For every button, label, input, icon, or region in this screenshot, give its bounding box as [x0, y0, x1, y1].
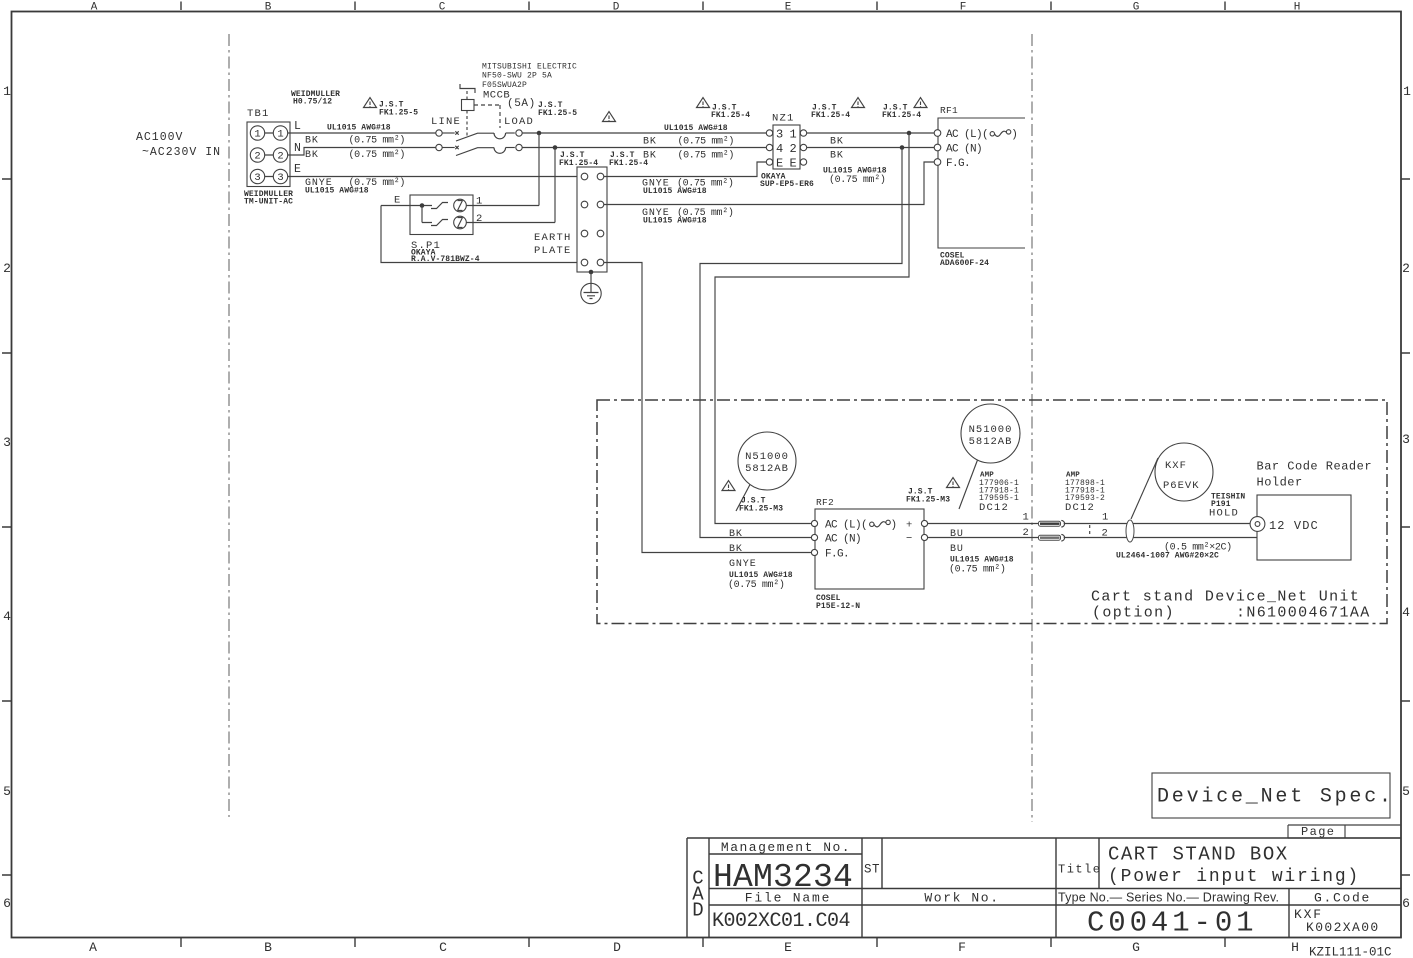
- plug contact row 2: [1039, 534, 1065, 541]
- svg-text:E: E: [776, 157, 783, 171]
- svg-text:P6EVK: P6EVK: [1163, 480, 1200, 492]
- column letters bottom: [89, 940, 1299, 955]
- svg-text:G: G: [1132, 940, 1140, 955]
- svg-text:1: 1: [790, 128, 797, 142]
- terminal label J.S.T FK1.25-4 (middle) + triangle: [811, 104, 850, 121]
- TB1 wire-end ferrule label: [291, 90, 340, 107]
- svg-text:NF50-SWU 2P 5A: NF50-SWU 2P 5A: [482, 72, 552, 81]
- ground symbol: [581, 270, 601, 304]
- svg-text:6: 6: [1402, 896, 1410, 911]
- wire label UL1015 AWG#18 (to NZ1 E): [643, 187, 707, 196]
- row numbers left: [3, 84, 11, 911]
- svg-text:DC12: DC12: [979, 502, 1009, 514]
- plug contact row 1: [1039, 520, 1065, 527]
- svg-text:BK: BK: [830, 151, 844, 162]
- header G.Code: [1314, 891, 1371, 906]
- svg-text:TM-UNIT-AC: TM-UNIT-AC: [244, 198, 293, 207]
- svg-text:1: 1: [277, 129, 283, 141]
- svg-text:): ): [1011, 129, 1017, 141]
- terminal label J.S.T FK1.25-4 (NZ1 left): [711, 104, 750, 121]
- svg-text:1: 1: [1102, 512, 1110, 524]
- svg-text:5: 5: [1402, 784, 1410, 799]
- svg-text:N51000: N51000: [969, 424, 1013, 436]
- svg-text:G: G: [1133, 2, 1140, 14]
- title text Power input wiring: [1108, 867, 1360, 887]
- svg-text:UL1015 AWG#18: UL1015 AWG#18: [643, 187, 707, 196]
- svg-text:4: 4: [3, 609, 11, 624]
- svg-text:K002XC01.C04: K002XC01.C04: [712, 910, 850, 933]
- svg-text:F.G.: F.G.: [825, 549, 849, 561]
- svg-text:LINE: LINE: [431, 116, 461, 128]
- connector DC12 part numbers (left): [979, 472, 1019, 515]
- wire label BK (RF2 N): [729, 544, 743, 555]
- svg-text:BK: BK: [729, 544, 743, 555]
- svg-text:D: D: [613, 2, 620, 14]
- svg-text:3: 3: [277, 172, 283, 184]
- svg-text:UL1015 AWG#18: UL1015 AWG#18: [664, 124, 728, 133]
- breaker name MCCB: [483, 90, 510, 102]
- wire L from TB1 to breaker: [288, 132, 436, 134]
- svg-text:F: F: [960, 2, 967, 14]
- power supply RF2: [811, 497, 927, 589]
- svg-text:PLATE: PLATE: [534, 245, 572, 257]
- svg-text:1: 1: [254, 129, 260, 141]
- wire label UL1015 AWG#18 (E at TB1): [305, 187, 369, 196]
- earth plate label: [534, 232, 572, 257]
- svg-text:FK1.25-M3: FK1.25-M3: [906, 496, 950, 505]
- title text CART STAND BOX: [1108, 844, 1289, 866]
- svg-text:C0041-01: C0041-01: [1087, 907, 1257, 940]
- connector DC12 part numbers (right): [1065, 472, 1105, 515]
- label LOAD: [504, 116, 534, 128]
- wire NZ1 pin1 to RF1 AC(L): [807, 132, 934, 134]
- svg-text:E: E: [785, 2, 792, 14]
- earth plate: [577, 167, 607, 272]
- svg-text:Device_Net Spec.: Device_Net Spec.: [1157, 786, 1394, 809]
- svg-text:(0.75 mm²): (0.75 mm²): [349, 149, 406, 161]
- svg-text:6: 6: [3, 896, 11, 911]
- svg-text:FK1.25-4: FK1.25-4: [882, 111, 921, 120]
- pin 1 label (plug right): [1102, 512, 1110, 524]
- wire label BK (RF2 L): [729, 529, 743, 540]
- svg-text:+: +: [906, 520, 914, 532]
- balloon N51000 5812AB (right): [959, 404, 1020, 509]
- svg-text:NZ1: NZ1: [772, 113, 795, 125]
- frame tick marks bottom edge: [181, 938, 1225, 947]
- svg-text:SUP-EP5-ER6: SUP-EP5-ER6: [760, 180, 814, 189]
- wire NZ1 pin2 to RF1 AC(N): [807, 147, 934, 149]
- svg-text:N51000: N51000: [745, 451, 789, 463]
- frame tick marks left edge: [2, 179, 11, 875]
- svg-text:(5A): (5A): [507, 98, 536, 110]
- power supply RF1: [934, 105, 1025, 248]
- svg-text:EARTH: EARTH: [534, 232, 572, 244]
- wire plug to barcode reader (1): [1064, 523, 1250, 525]
- warning triangle (DC12 left): [947, 478, 960, 488]
- svg-text:TB1: TB1: [247, 108, 270, 120]
- svg-text:2: 2: [1402, 261, 1410, 276]
- svg-text:H: H: [1294, 2, 1301, 14]
- svg-text:FK1.25-5: FK1.25-5: [538, 109, 577, 118]
- junction N down to option box: [700, 145, 904, 537]
- svg-text:LOAD: LOAD: [504, 116, 534, 128]
- wire label 0.75 (NZ1 to RF1): [829, 174, 886, 186]
- wire label UL1015 AWG#18 (L at TB1): [327, 124, 391, 133]
- svg-text:FK1.25-4: FK1.25-4: [711, 111, 750, 120]
- svg-text:B: B: [265, 2, 272, 14]
- svg-text:ST: ST: [864, 863, 880, 877]
- wire GNYE earth plate to RF2 FG: [604, 263, 812, 553]
- wire label BK 0.75 (N into NZ1): [643, 150, 734, 162]
- svg-text:(0.75 mm²): (0.75 mm²): [678, 150, 735, 162]
- svg-text:L: L: [294, 120, 301, 133]
- svg-text:UL1015 AWG#18: UL1015 AWG#18: [327, 124, 391, 133]
- header Management No.: [721, 840, 851, 855]
- label LINE: [431, 116, 461, 128]
- wire N breaker to NZ1: [522, 147, 766, 149]
- svg-text:1: 1: [1403, 84, 1411, 99]
- svg-text:(option): (option): [1092, 605, 1175, 622]
- management number HAM3234: [713, 859, 853, 896]
- wire label UL1015 AWG#18 (to RF1 FG): [643, 217, 707, 226]
- cut line left (dash-dot): [228, 34, 230, 817]
- svg-text:Cart stand Device_Net Unit: Cart stand Device_Net Unit: [1091, 589, 1360, 606]
- wire label BK 0.75 (L at TB1): [305, 135, 405, 147]
- TB1 maker label: [244, 190, 293, 207]
- header Work No.: [924, 891, 999, 906]
- cable bundle oval: [1126, 520, 1134, 542]
- breaker MCCB maker text: [482, 63, 577, 91]
- balloon N51000 5812AB (left): [736, 432, 796, 511]
- svg-text:B: B: [264, 940, 272, 955]
- svg-text:Management No.: Management No.: [721, 840, 851, 855]
- terminal label J.S.T FK1.25-5 (right): [538, 101, 577, 118]
- svg-text:−: −: [906, 533, 914, 545]
- wire label BK 0.75 (L into NZ1): [643, 136, 734, 148]
- header ST: [864, 863, 880, 877]
- svg-text:E: E: [790, 157, 797, 171]
- wire N from TB1 (jog up) to breaker: [288, 148, 436, 156]
- svg-text:C: C: [439, 2, 446, 14]
- balloon KXF P6EVK: [1131, 443, 1213, 519]
- svg-text:UL1015 AWG#18: UL1015 AWG#18: [643, 217, 707, 226]
- column letters top: [91, 2, 1301, 14]
- file name K002XC01.C04: [712, 910, 850, 933]
- svg-text:~AC230V IN: ~AC230V IN: [142, 146, 221, 159]
- svg-text:UL1015 AWG#18: UL1015 AWG#18: [729, 571, 793, 580]
- svg-text:G.Code: G.Code: [1314, 891, 1371, 906]
- svg-text:2: 2: [254, 151, 260, 163]
- svg-text:Bar Code Reader: Bar Code Reader: [1257, 460, 1373, 474]
- breaker rating (5A): [507, 98, 536, 110]
- svg-text:1: 1: [1023, 512, 1031, 524]
- breaker pole 1 (L): [436, 130, 522, 141]
- svg-text:E: E: [394, 195, 402, 207]
- svg-text:BU: BU: [950, 529, 964, 540]
- option unit dashed boundary box: [597, 400, 1387, 624]
- svg-text:5: 5: [3, 784, 11, 799]
- bar code reader holder box: [1250, 495, 1351, 560]
- svg-text:GNYE: GNYE: [729, 559, 757, 570]
- svg-text:BU: BU: [950, 544, 964, 555]
- sheet code KZIL111-01C: [1309, 946, 1392, 958]
- terminal label J.S.T FK1.25-M3 (RF2): [739, 497, 783, 514]
- svg-text:3: 3: [254, 172, 260, 184]
- svg-text:A: A: [91, 2, 98, 14]
- svg-text:FK1.25-5: FK1.25-5: [379, 109, 418, 118]
- holder maker label TEISHIN P191 HOLD: [1209, 493, 1245, 520]
- option unit caption: [1091, 589, 1371, 622]
- svg-text:12 VDC: 12 VDC: [1269, 519, 1319, 533]
- header File Name: [745, 891, 831, 906]
- svg-text::N610004671AA: :N610004671AA: [1236, 605, 1371, 622]
- pin 2 label (plug left): [1023, 527, 1031, 539]
- pin 2 label (plug right): [1102, 528, 1110, 540]
- svg-text:Work No.: Work No.: [924, 891, 999, 906]
- svg-text:Title: Title: [1058, 863, 1102, 877]
- breaker pole 2 (N): [436, 144, 522, 155]
- noise filter NZ1: [766, 113, 806, 171]
- svg-text:RF2: RF2: [816, 497, 834, 508]
- svg-text:E: E: [294, 163, 301, 176]
- svg-text:N: N: [294, 142, 301, 155]
- svg-text:Page: Page: [1301, 825, 1335, 839]
- header Type No.- Series No.- Drawing Rev.: [1058, 891, 1279, 905]
- svg-text:K002XA00: K002XA00: [1306, 920, 1380, 935]
- svg-text:KZIL111-01C: KZIL111-01C: [1309, 946, 1392, 958]
- svg-text:F: F: [958, 940, 966, 955]
- wire label 0.75 (RF2): [728, 579, 785, 591]
- svg-text:P15E-12-N: P15E-12-N: [816, 602, 860, 611]
- RF2 maker label: [816, 594, 860, 611]
- title block grid: [687, 838, 1401, 938]
- svg-text:4: 4: [776, 142, 783, 156]
- svg-text:AC (L)(: AC (L)(: [946, 129, 988, 141]
- svg-text:RF1: RF1: [940, 105, 958, 116]
- svg-text:Type No.— Series No.— Drawing: Type No.— Series No.— Drawing Rev.: [1058, 891, 1279, 905]
- junction L to surge absorber: [537, 131, 542, 206]
- NZ1 maker label: [760, 173, 814, 190]
- cut line right (dash-dot): [1031, 34, 1033, 822]
- svg-text:MITSUBISHI ELECTRIC: MITSUBISHI ELECTRIC: [482, 63, 577, 72]
- svg-text:2: 2: [1023, 527, 1031, 539]
- svg-text:ADA600F-24: ADA600F-24: [940, 259, 989, 268]
- svg-text:UL1015 AWG#18: UL1015 AWG#18: [950, 556, 1014, 565]
- label 12 VDC: [1269, 519, 1319, 533]
- svg-text:(0.75 mm²): (0.75 mm²): [678, 136, 735, 148]
- cable label UL2464-1007 AWG#20x2C: [1116, 552, 1219, 561]
- header Title: [1058, 863, 1102, 877]
- svg-text:F.G.: F.G.: [946, 158, 970, 170]
- wire label BK 0.75 (N at TB1): [305, 149, 405, 161]
- svg-text:FK1.25-4: FK1.25-4: [811, 111, 850, 120]
- page cell: [1288, 825, 1401, 839]
- svg-text:AC (N): AC (N): [825, 534, 861, 546]
- svg-text:AC (N): AC (N): [946, 144, 982, 156]
- svg-text:File Name: File Name: [745, 891, 831, 906]
- svg-text:D: D: [692, 900, 703, 922]
- wire label UL1015 AWG#18 (L into NZ1): [664, 124, 728, 133]
- wire RF2 + to plug: [928, 523, 1038, 525]
- svg-text:AC100V: AC100V: [136, 131, 183, 144]
- svg-text:H0.75/12: H0.75/12: [293, 98, 332, 107]
- wire label 0.75 (BU): [949, 564, 1006, 576]
- svg-text:Holder: Holder: [1257, 476, 1303, 490]
- terminal label J.S.T FK1.25-5 (left): [379, 101, 418, 118]
- svg-text:5812AB: 5812AB: [969, 436, 1013, 448]
- svg-text:(Power input wiring): (Power input wiring): [1108, 867, 1360, 887]
- svg-text:): ): [891, 520, 897, 532]
- svg-text:UL1015 AWG#18: UL1015 AWG#18: [305, 187, 369, 196]
- TB1 terminal letters L N E: [294, 120, 301, 176]
- wire E GNYE from TB1 to earth plate: [288, 176, 577, 178]
- svg-text:E: E: [784, 940, 792, 955]
- svg-text:1: 1: [3, 84, 11, 99]
- svg-text:BK: BK: [643, 137, 657, 148]
- warning triangle (after LOAD): [603, 112, 616, 122]
- svg-text:D: D: [613, 940, 621, 955]
- svg-text:HOLD: HOLD: [1209, 508, 1239, 520]
- node AC input label: [136, 131, 221, 159]
- junction L down to option box: [715, 131, 911, 524]
- terminal block TB1: [247, 108, 290, 187]
- svg-text:3: 3: [776, 128, 783, 142]
- svg-text:5812AB: 5812AB: [745, 463, 789, 475]
- wire label GNYE 0.75 (to RF1 FG): [642, 207, 734, 219]
- svg-text:BK: BK: [830, 137, 844, 148]
- wire label BK (NZ1 to RF1 L): [830, 137, 844, 148]
- wire label GNYE 0.75 (E at TB1): [305, 177, 405, 189]
- cable label 0.5mm x2C: [1164, 542, 1232, 554]
- svg-text:C: C: [439, 940, 447, 955]
- svg-text:2: 2: [3, 261, 11, 276]
- svg-text:3: 3: [1402, 432, 1410, 447]
- S.P1 name and maker: [411, 240, 480, 264]
- wire L breaker to NZ1: [522, 132, 766, 134]
- svg-text:BK: BK: [305, 136, 319, 147]
- warning triangle (NZ1 left): [697, 98, 710, 108]
- row numbers right: [1402, 84, 1411, 911]
- wire label UL1015 AWG#18 (NZ1 to RF1): [823, 167, 887, 176]
- svg-text:R.A.V-781BWZ-4: R.A.V-781BWZ-4: [411, 255, 480, 264]
- wire label BU (-): [950, 544, 964, 555]
- wire GNYE earth plate to RF1 FG: [604, 162, 934, 205]
- svg-text:AC (L)(: AC (L)(: [825, 520, 867, 532]
- frame tick marks top edge: [181, 2, 1225, 11]
- wire label BK (NZ1 to RF1 N): [830, 151, 844, 162]
- wire plug to barcode reader (2): [1064, 537, 1257, 539]
- svg-text:4: 4: [1402, 605, 1410, 620]
- svg-text:(0.75 mm²): (0.75 mm²): [949, 564, 1006, 576]
- warning triangle (J.S.T FK1.25-5 left): [364, 98, 377, 108]
- g.code KXF K002XA00: [1294, 907, 1380, 935]
- Device_Net Spec note box: [1152, 773, 1394, 818]
- wire label GNYE 0.75 (to NZ1 E): [642, 178, 734, 190]
- svg-text:UL2464-1007 AWG#20×2C: UL2464-1007 AWG#20×2C: [1116, 552, 1219, 561]
- svg-text:2: 2: [476, 213, 484, 225]
- svg-text:(0.75 mm²): (0.75 mm²): [349, 135, 406, 147]
- wire label GNYE (RF2 FG): [729, 559, 757, 570]
- svg-text:3: 3: [3, 435, 11, 450]
- breaker MCCB trip linkage (dashed): [460, 84, 500, 136]
- svg-text:2: 2: [277, 151, 283, 163]
- wire label UL1015 AWG#18 (RF2): [729, 571, 793, 580]
- svg-text:A: A: [89, 940, 97, 955]
- terminal label J.S.T FK1.25-4 (right) + triangle: [882, 104, 921, 121]
- junction N to surge absorber: [553, 145, 558, 222]
- surge protector S.P1: [381, 195, 577, 263]
- cable tie dashed mark: [1089, 525, 1091, 535]
- svg-text:2: 2: [790, 142, 797, 156]
- warning triangle (RF2 left): [722, 481, 735, 491]
- terminal label J.S.T FK1.25-M3 (DC12 left): [906, 488, 950, 505]
- svg-text:FK1.25-M3: FK1.25-M3: [739, 505, 783, 514]
- svg-text:H: H: [1291, 940, 1299, 955]
- title CAD letters: [692, 868, 704, 922]
- wire GNYE earth plate to NZ1 E: [604, 162, 767, 177]
- svg-text:CART STAND BOX: CART STAND BOX: [1108, 844, 1289, 866]
- wire RF2 - to plug: [928, 537, 1038, 539]
- svg-text:BK: BK: [305, 150, 319, 161]
- terminal label J.S.T FK1.25-4 (pair near earth plate): [559, 151, 648, 168]
- svg-text:BK: BK: [643, 151, 657, 162]
- svg-text:BK: BK: [729, 529, 743, 540]
- frame tick marks right edge: [1401, 179, 1410, 875]
- svg-text:(0.75 mm²): (0.75 mm²): [728, 579, 785, 591]
- RF1 maker label: [940, 252, 989, 269]
- wire label UL1015 AWG#18 (BU): [950, 556, 1014, 565]
- drawing number C0041-01: [1087, 907, 1257, 940]
- wire label BU (+): [950, 529, 964, 540]
- svg-text:(0.75 mm²): (0.75 mm²): [829, 174, 886, 186]
- svg-text:DC12: DC12: [1065, 502, 1095, 514]
- svg-text:KXF: KXF: [1165, 460, 1187, 472]
- label Bar Code Reader Holder: [1257, 460, 1373, 490]
- pin 1 label (plug left): [1023, 512, 1031, 524]
